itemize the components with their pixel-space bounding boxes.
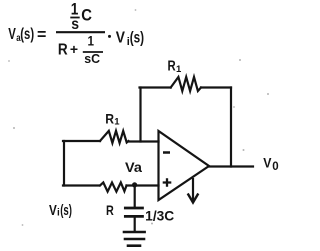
op-amp U1 triangle [159, 131, 210, 200]
wire output [209, 165, 253, 167]
wire top-left branch to R1 [63, 140, 100, 142]
resistor R1 (input branch) [100, 131, 129, 143]
resistor R1 (feedback) [171, 77, 201, 91]
wire feedback vertical right down to output [230, 88, 232, 167]
wire R1 to op-amp inverting input [129, 140, 159, 142]
formula Va(s) = ((1/s)C)/(R + 1/(sC)) . Vi(s) [8, 0, 144, 66]
svg-text:V: V [8, 26, 16, 43]
svg-text:V: V [49, 203, 57, 219]
svg-text:R: R [58, 41, 68, 58]
svg-text:V: V [263, 156, 271, 171]
wire R to op-amp non-inverting input [127, 184, 159, 186]
svg-text:R: R [106, 202, 114, 218]
svg-text:1/3C: 1/3C [145, 208, 174, 223]
wire feedback vertical left [139, 88, 141, 142]
svg-text:Va: Va [125, 160, 142, 175]
wire top loop left segment [140, 86, 171, 88]
svg-text:(s): (s) [130, 30, 144, 47]
svg-text:1: 1 [176, 64, 182, 75]
svg-text:(s): (s) [60, 203, 72, 219]
svg-text:=: = [37, 27, 46, 44]
svg-text:1: 1 [114, 117, 120, 128]
ground arrow at op-amp output stage [192, 179, 194, 201]
svg-text:+: + [70, 41, 78, 57]
capacitor lead bottom [134, 216, 136, 231]
op-amp plus sign [163, 178, 172, 187]
svg-text:1: 1 [88, 32, 95, 48]
svg-text:V: V [116, 30, 125, 47]
capacitor lead top [134, 186, 136, 207]
wire top loop right segment [201, 86, 231, 88]
op-amp minus sign [163, 151, 170, 154]
svg-text:sC: sC [84, 51, 100, 66]
ground symbol [124, 231, 145, 234]
main fraction bar [56, 31, 105, 33]
svg-text:R: R [168, 58, 177, 74]
node Va junction dot [132, 182, 137, 187]
svg-text:s: s [71, 16, 79, 33]
multiplication dot and Vi(s) [108, 35, 111, 38]
wire bottom branch from left bus to R [63, 184, 100, 186]
svg-text:R: R [105, 110, 114, 126]
svg-text:0: 0 [272, 161, 278, 173]
resistor R (input) [100, 183, 127, 192]
svg-text:C: C [81, 6, 92, 25]
wire left vertical (input bus) [63, 141, 65, 186]
svg-text:(s): (s) [20, 26, 34, 43]
capacitor 1/3C plates [125, 207, 142, 210]
